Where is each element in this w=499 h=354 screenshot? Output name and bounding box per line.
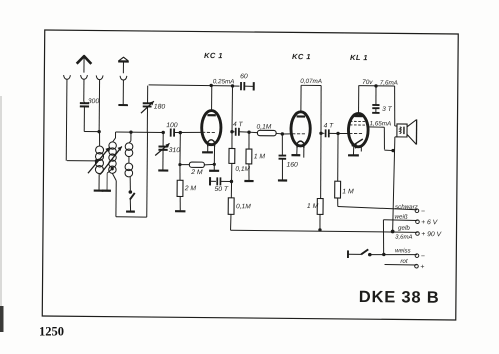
svg-text:weiss: weiss	[395, 247, 411, 254]
node anode KC1a on HT bus	[209, 84, 212, 87]
node tube3 grid junction	[336, 132, 339, 135]
svg-text:0,1M: 0,1M	[236, 203, 251, 210]
wire HT plus rail gelb	[231, 230, 418, 232]
wire 0,1M to tube2 grid node	[276, 132, 282, 134]
ground under KC1a left	[202, 151, 213, 153]
ground under KL1	[348, 154, 359, 156]
on-off switch end bar	[347, 250, 349, 258]
wire anode KL1 to HT top wire	[358, 86, 360, 114]
wire weiss plus6 rail	[383, 219, 417, 222]
svg-text:1 M: 1 M	[342, 188, 354, 195]
node HT rail 1M junction	[318, 228, 321, 231]
capacitor 50T with end bar	[209, 177, 211, 185]
antenna symbol	[77, 56, 92, 64]
wire coil1 top lead	[98, 80, 100, 132]
wire grid dash-dot into KC1b	[282, 133, 291, 135]
resistor 0,1M horizontal	[249, 131, 257, 133]
node weiss rail junction	[382, 253, 385, 256]
node screen to speaker return	[391, 149, 394, 152]
capacitor 4T second	[321, 132, 324, 134]
ground under KC1b	[291, 154, 300, 156]
wire grid dash-dot inside KC1a	[202, 131, 215, 133]
ground under L2 tap	[102, 190, 111, 192]
ground under capacitor 160	[278, 179, 287, 181]
wire cathode left lead KC1a	[207, 146, 209, 152]
resistor 1M anode load KC1b	[319, 133, 322, 198]
svg-text:100: 100	[166, 122, 178, 129]
wire HT bus 0,25mA	[149, 85, 233, 86]
wire speaker return to HT rail	[395, 136, 398, 138]
cathode arc KC1b	[297, 141, 304, 148]
wire L3 to wave switch	[129, 177, 131, 190]
loudspeaker transformer box	[397, 124, 407, 137]
wave switch contact	[129, 190, 133, 194]
svg-text:DKE 38 B: DKE 38 B	[359, 288, 440, 307]
svg-text:2 M: 2 M	[184, 185, 197, 192]
wire weiss minus rail	[370, 253, 417, 256]
wire 310-node down to 2M junction	[179, 133, 181, 165]
ground under KC1a right	[209, 170, 219, 172]
node after capacitor 100	[179, 131, 182, 134]
svg-text:+ 6 V: + 6 V	[421, 219, 439, 226]
inductor L1 antenna coil	[96, 146, 104, 154]
svg-text:3,6mA: 3,6mA	[395, 235, 412, 241]
node capacitor 3T junction	[374, 84, 377, 87]
screen grid dash lines KL1	[350, 120, 367, 122]
wire grid dash-dot into KL1	[338, 132, 348, 134]
svg-text:+ 90 V: + 90 V	[421, 231, 442, 238]
node HT bus to anode load	[231, 84, 234, 87]
svg-text:50 T: 50 T	[214, 186, 229, 193]
node 2M junction	[178, 163, 181, 166]
node coil3 top junction	[129, 130, 132, 133]
antenna plug connector	[81, 75, 88, 79]
cathode hook KL1	[352, 139, 363, 146]
wire rot rail	[385, 263, 417, 266]
svg-text:70v: 70v	[362, 79, 373, 86]
node HT rail speaker junction	[391, 230, 395, 234]
inductor L3 wave-switch coil	[130, 132, 132, 141]
node tube2 grid junction	[281, 132, 284, 135]
capacitor 100 series	[170, 128, 172, 136]
wire cathode right lead KC1a	[213, 146, 215, 170]
svg-text:2 M: 2 M	[190, 169, 203, 176]
svg-text:schwarz: schwarz	[395, 204, 418, 211]
anode plate bar KL1	[354, 115, 362, 117]
tube KL1 envelope	[348, 113, 368, 147]
ground under L1	[94, 189, 104, 191]
wire 1M to ground	[248, 164, 250, 180]
wire anode loop 0,07mA	[300, 85, 302, 112]
ground under capacitor 310	[158, 169, 168, 171]
capacitor 4T first	[232, 131, 235, 133]
resistor 1M grid leak KL1	[337, 133, 340, 181]
wire 1M to HT rail	[319, 214, 321, 229]
svg-text:KL 1: KL 1	[350, 53, 368, 62]
wave switch lever	[130, 193, 135, 200]
resistor 0,1M vertical in anode chain	[231, 132, 233, 149]
wire grid leak to schwarz rail	[337, 198, 339, 207]
wire anode lead KC1a	[211, 85, 213, 111]
svg-text:3 T: 3 T	[382, 106, 393, 113]
ground under wave switch	[126, 210, 135, 212]
svg-text:4 T: 4 T	[233, 121, 244, 128]
wire anode chain to 50T node	[230, 163, 233, 197]
earth symbol	[119, 57, 128, 61]
svg-text:+: +	[420, 264, 424, 271]
inductor L2 tuned coil	[114, 132, 116, 138]
svg-text:160: 160	[286, 162, 298, 169]
ground under 2M vertical	[175, 210, 185, 212]
wire cathode left lead KL1	[352, 146, 354, 154]
capacitor 60 with end bar	[233, 85, 240, 87]
tube KC1 first envelope	[202, 110, 222, 144]
terminal schwarz minus	[415, 209, 419, 213]
node after 4T first	[247, 130, 250, 133]
svg-text:1250: 1250	[39, 325, 64, 339]
scan page-edge artifact	[0, 96, 2, 310]
capacitor 300	[83, 102, 85, 103]
variable capacitor 180	[147, 86, 149, 103]
anode plate bar KC1b	[297, 115, 305, 117]
wire HT down to speaker	[393, 86, 396, 126]
resistor 1M first-stage leak	[248, 132, 250, 149]
terminal rot plus	[415, 264, 419, 268]
tube KC1 second envelope	[291, 112, 311, 146]
node capacitor 50T junction	[230, 180, 233, 183]
wire decoupling resistor to HT rail	[230, 214, 232, 230]
svg-text:0,07mA: 0,07mA	[300, 78, 322, 85]
tap junction on L2	[111, 167, 114, 170]
on-off switch	[348, 253, 361, 255]
wire screen 1,65mA	[368, 126, 385, 128]
schematic border frame	[42, 30, 458, 320]
svg-text:KC 1: KC 1	[204, 51, 223, 60]
svg-text:−: −	[421, 208, 425, 215]
wire antenna tap	[67, 160, 96, 162]
capacitor 3T with end bar	[375, 86, 377, 105]
on-off switch pivot	[368, 253, 372, 257]
node before 4T second	[319, 132, 322, 135]
svg-text:0,1M: 0,1M	[257, 124, 272, 131]
svg-text:7,6mA: 7,6mA	[380, 80, 398, 87]
tuning arrow through L2	[100, 146, 122, 175]
terminal gelb plus 90V	[416, 232, 420, 236]
svg-text:4 T: 4 T	[324, 122, 335, 129]
cathode arc KC1a	[208, 140, 215, 147]
node A junction antenna coil top	[97, 130, 100, 133]
svg-text:180: 180	[154, 104, 166, 111]
svg-text:60: 60	[240, 73, 248, 80]
svg-text:rot: rot	[400, 258, 408, 265]
anode plate bar KC1a	[207, 114, 215, 116]
svg-text:1 M: 1 M	[307, 203, 319, 210]
wire switch to ground	[129, 200, 131, 211]
svg-text:weiß: weiß	[395, 214, 408, 221]
terminal weiss minus	[415, 254, 419, 258]
ground under 1M	[244, 180, 253, 182]
svg-text:0,1M: 0,1M	[235, 166, 250, 173]
wire 2M to tube cathode lead	[204, 163, 214, 166]
loudspeaker horn	[407, 119, 417, 127]
wire L2 tap to ground	[107, 169, 112, 173]
wire grid bus to tube KC1a	[174, 131, 201, 134]
capacitor 160	[281, 134, 283, 155]
wire L2 bottom return loop	[112, 173, 116, 180]
resistor 2M vertical	[179, 165, 181, 181]
node cathode right KC1a	[213, 163, 216, 166]
wire cathode right lead KC1b	[303, 147, 305, 158]
aerial terminal plug connector	[64, 75, 71, 79]
svg-text:gelb: gelb	[398, 225, 410, 232]
wire cathode left lead KC1b	[296, 147, 298, 154]
node coupling capacitor 4T first	[230, 130, 233, 133]
wire coil1 to ground	[98, 174, 100, 190]
svg-text:300: 300	[88, 98, 100, 105]
node variable cap 310 junction	[161, 131, 164, 134]
svg-text:0,25mA: 0,25mA	[213, 78, 235, 85]
resistor 0,1M lower decoupling	[228, 198, 234, 215]
wire grid bus left segment	[116, 131, 164, 133]
svg-text:1,65mA: 1,65mA	[370, 120, 392, 127]
svg-text:−: −	[421, 253, 425, 260]
resistor 2M grid leak horizontal	[180, 164, 189, 166]
loudspeaker coil mark	[400, 127, 402, 134]
wire cathode right lead KL1	[360, 146, 362, 151]
svg-text:KC 1: KC 1	[292, 52, 311, 61]
svg-text:310: 310	[169, 147, 181, 154]
svg-text:1 M: 1 M	[254, 153, 266, 160]
wire 2M vertical to ground	[179, 196, 181, 210]
tuning arrow through L1	[88, 147, 110, 173]
terminal weiss plus 6V	[416, 220, 420, 224]
variable capacitor 310	[162, 132, 164, 146]
wire anode load vertical upper	[231, 86, 234, 132]
